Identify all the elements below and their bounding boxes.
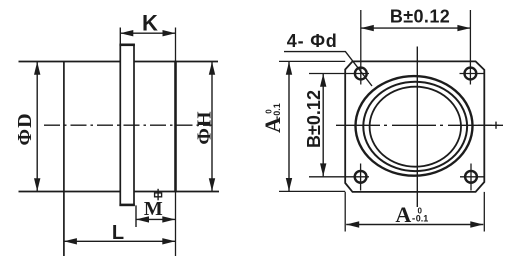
svg-text:B±0.12: B±0.12 bbox=[390, 7, 450, 27]
svg-text:4- Φd: 4- Φd bbox=[287, 31, 338, 51]
svg-text:B±0.12: B±0.12 bbox=[304, 90, 324, 148]
svg-text:L: L bbox=[112, 222, 124, 244]
svg-text:0.1: 0.1 bbox=[272, 103, 282, 116]
svg-text:ΦH: ΦH bbox=[194, 110, 216, 144]
svg-text:ΦD: ΦD bbox=[14, 112, 36, 145]
svg-text:0.1: 0.1 bbox=[416, 214, 429, 224]
svg-text:K: K bbox=[142, 11, 158, 36]
svg-text:A: A bbox=[260, 117, 285, 133]
svg-text:M: M bbox=[144, 198, 163, 220]
svg-text:A: A bbox=[395, 202, 411, 227]
